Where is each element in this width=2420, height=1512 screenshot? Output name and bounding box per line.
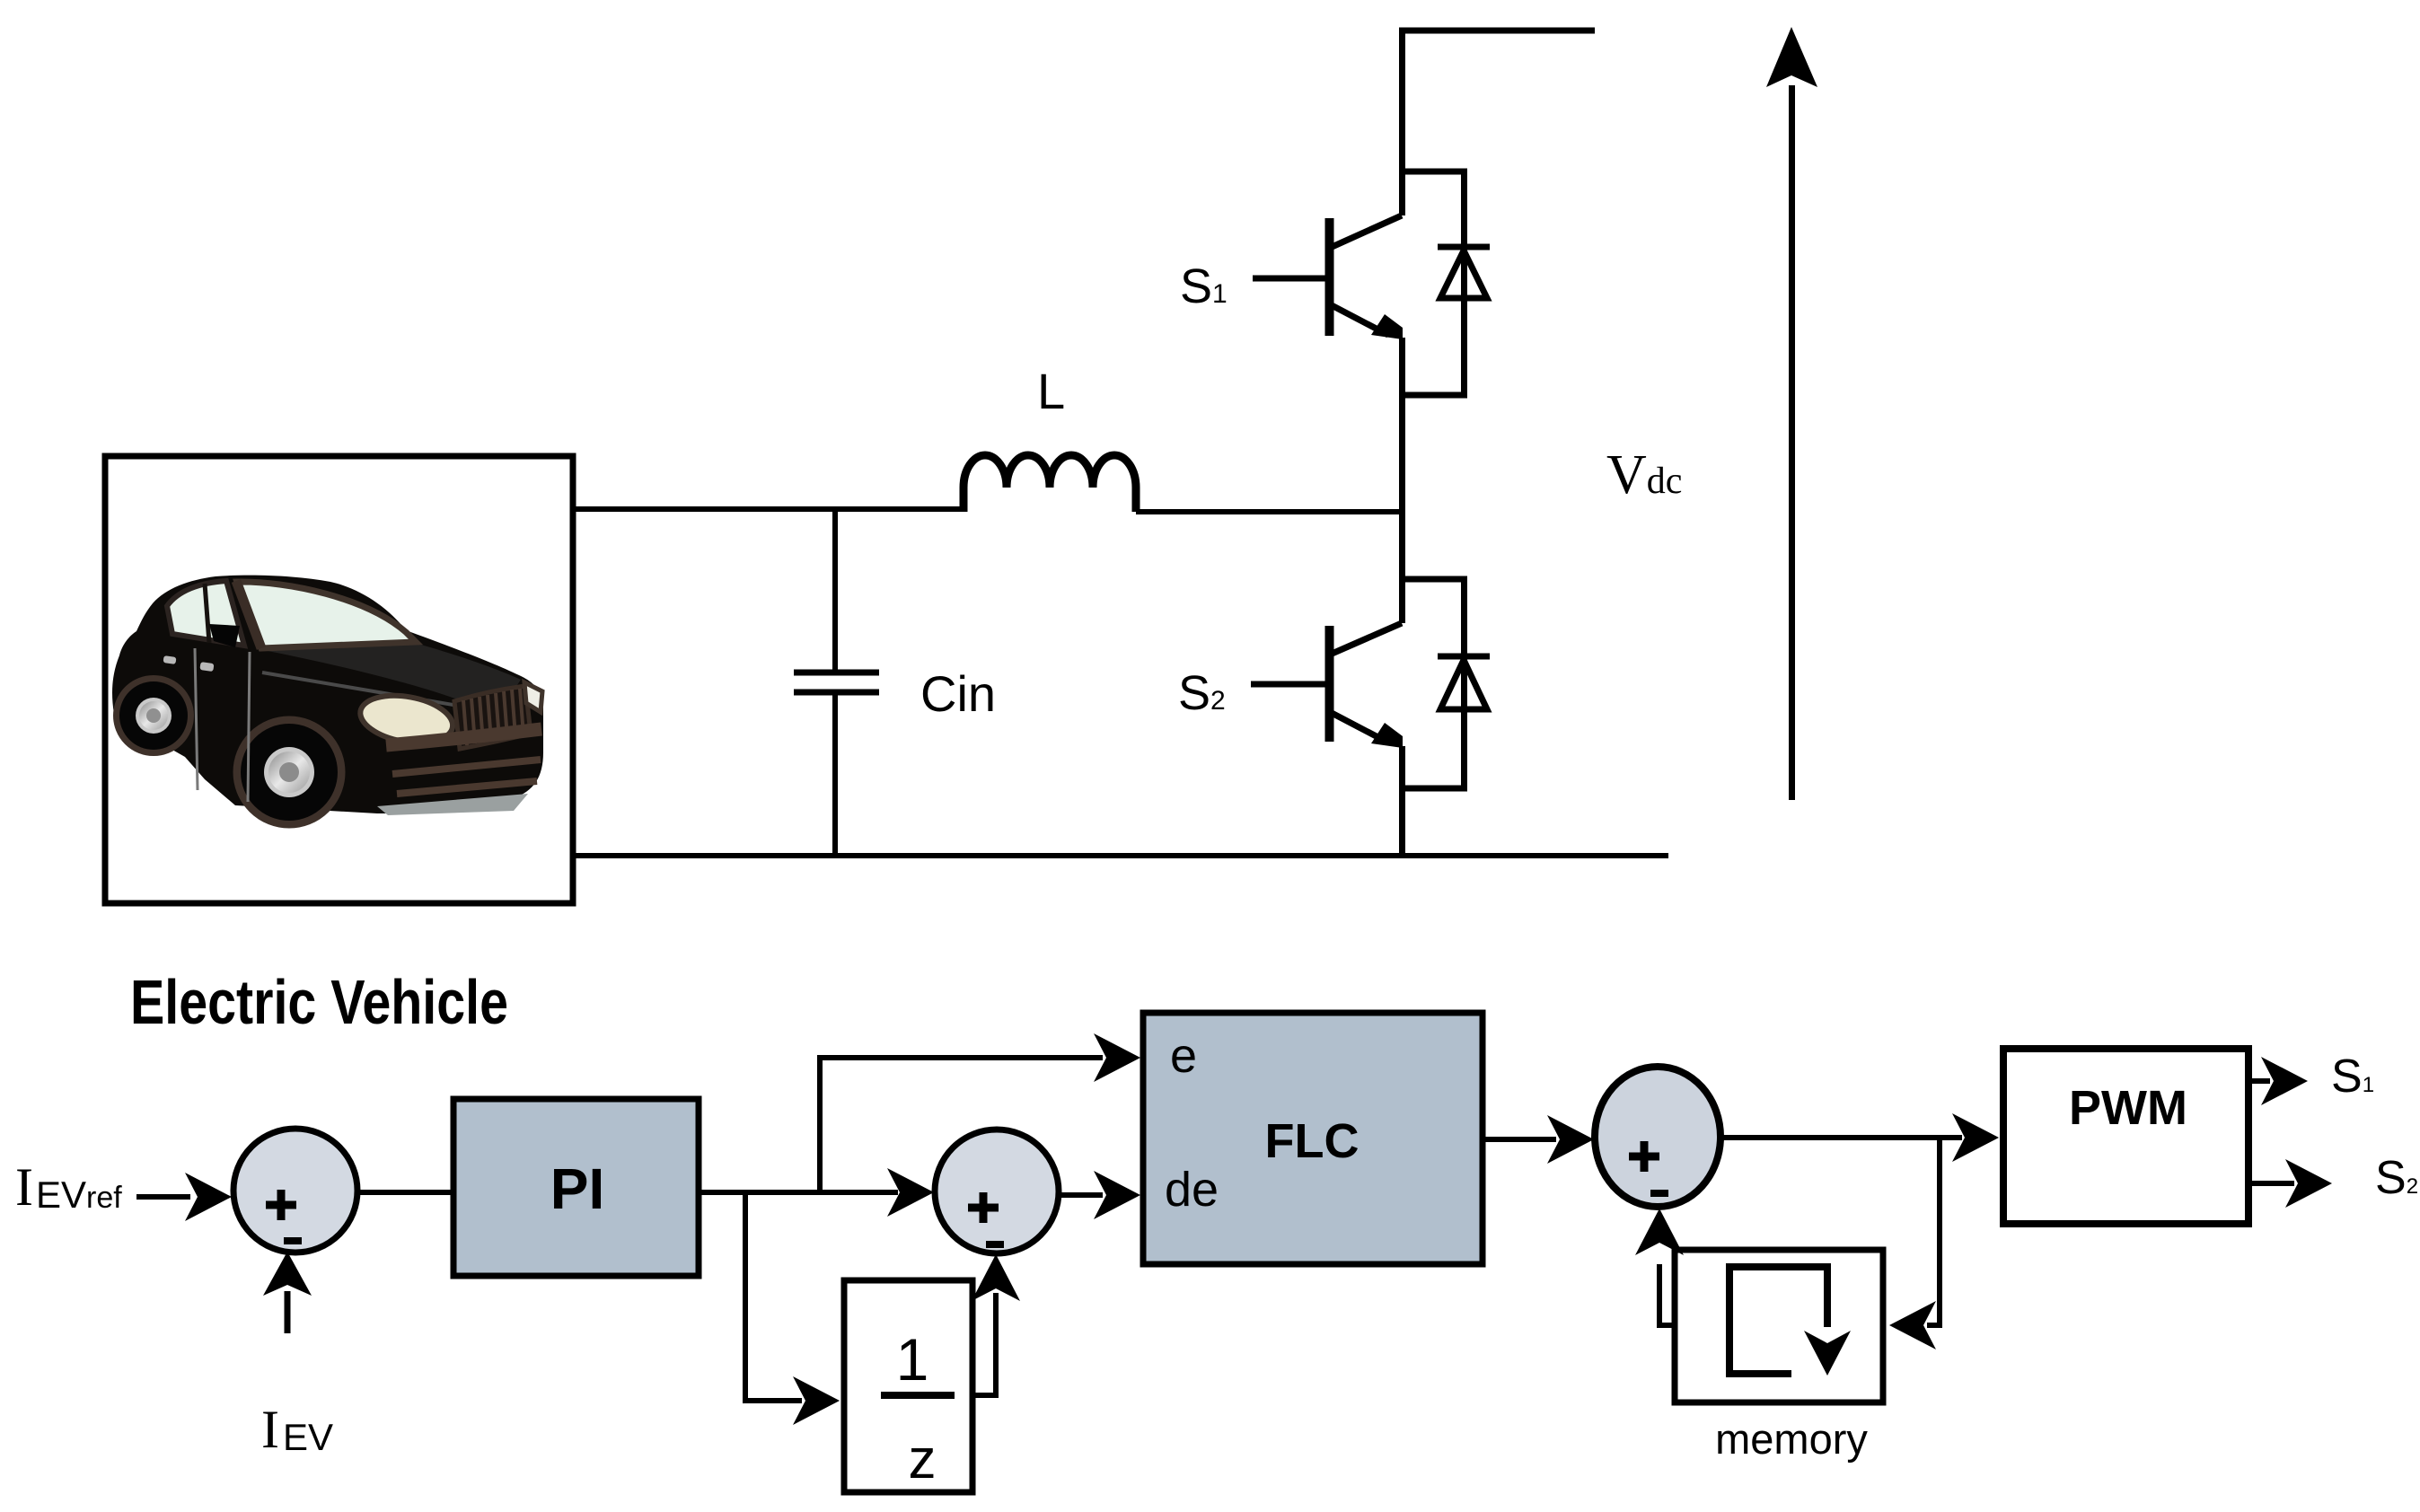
svg-text:Electric Vehicle: Electric Vehicle bbox=[130, 967, 508, 1037]
svg-text:PWM: PWM bbox=[2069, 1081, 2187, 1135]
svg-text:1: 1 bbox=[896, 1326, 929, 1393]
svg-text:FLC: FLC bbox=[1265, 1114, 1360, 1168]
svg-text:z: z bbox=[909, 1428, 937, 1490]
svg-text:EVref: EVref bbox=[36, 1174, 122, 1216]
svg-text:I: I bbox=[261, 1400, 279, 1459]
svg-text:Cin: Cin bbox=[920, 665, 996, 722]
svg-text:e: e bbox=[1170, 1029, 1197, 1083]
svg-text:de: de bbox=[1165, 1163, 1219, 1217]
svg-text:memory: memory bbox=[1715, 1415, 1868, 1463]
svg-text:L: L bbox=[1037, 363, 1065, 419]
svg-text:PI: PI bbox=[550, 1156, 604, 1221]
svg-text:I: I bbox=[15, 1157, 33, 1217]
svg-text:EV: EV bbox=[283, 1416, 333, 1458]
